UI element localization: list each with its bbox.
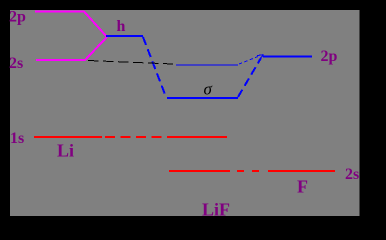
svg-text:σ: σ [204, 80, 213, 99]
svg-text:2p: 2p [9, 9, 26, 26]
svg-text:2p: 2p [321, 48, 338, 65]
svg-text:2s: 2s [345, 166, 359, 183]
svg-text:2s: 2s [9, 55, 23, 72]
svg-text:Li: Li [57, 141, 74, 161]
svg-text:h: h [117, 18, 126, 35]
svg-text:F: F [297, 177, 308, 197]
svg-text:1s: 1s [10, 130, 24, 147]
svg-text:LiF: LiF [202, 200, 230, 220]
